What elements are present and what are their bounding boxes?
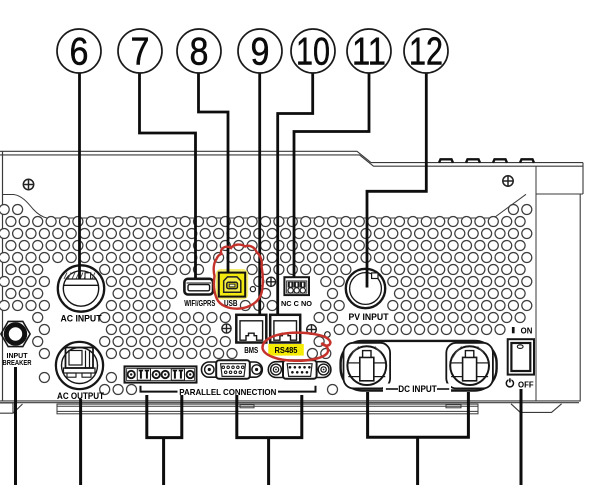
callout circle 10 — [291, 29, 335, 74]
bottom callout fork from DB9 connectors — [237, 395, 302, 485]
svg-text:INPUT: INPUT — [7, 353, 29, 360]
screw left of NC C NO — [266, 277, 275, 286]
callout circle 9 — [238, 29, 282, 74]
left foot — [0, 403, 23, 413]
red hand-drawn loop around USB — [214, 245, 263, 309]
callout circle 7 — [118, 29, 162, 74]
svg-text:OFF: OFF — [518, 381, 534, 390]
RS485 yellow highlight label — [268, 344, 304, 356]
leader line from callout 8 to USB — [199, 73, 229, 273]
right foot — [511, 404, 562, 413]
DB9 male connector — [268, 360, 331, 379]
bottom base bar — [57, 404, 478, 414]
USB type-B port (yellow highlighted) — [216, 269, 248, 300]
svg-text:BMS: BMS — [244, 346, 259, 355]
callout circle 8 — [177, 29, 221, 74]
screw right of RS485 — [307, 325, 317, 335]
svg-text:7: 7 — [131, 31, 150, 74]
svg-text:AC INPUT: AC INPUT — [61, 314, 102, 324]
small panel hole right of USB — [250, 287, 255, 292]
svg-text:11: 11 — [352, 31, 386, 74]
top edge mounting tabs — [439, 159, 534, 163]
svg-text:RS485: RS485 — [275, 346, 299, 355]
RS485 RJ45 port — [270, 315, 300, 343]
screw top-right — [503, 176, 513, 186]
chassis fold line — [535, 166, 537, 401]
svg-text:6: 6 — [70, 31, 89, 74]
leader line from callout 9 to BMS — [258, 73, 261, 315]
INPUT BREAKER label — [3, 353, 32, 367]
bottom callout line from AC OUTPUT — [79, 399, 82, 485]
svg-text:PV INPUT: PV INPUT — [349, 312, 389, 322]
bottom callout line from input breaker — [14, 367, 17, 485]
bottom callout line from power switch — [520, 389, 523, 485]
AC OUTPUT connector — [56, 342, 103, 389]
svg-text:WIFI/GPRS: WIFI/GPRS — [184, 299, 215, 308]
perforated vent holes — [0, 205, 532, 395]
WIFI/GPRS usb-a port — [184, 279, 213, 295]
PARALLEL CONNECTION label bracket — [141, 386, 316, 392]
bottom callout fork from terminal block — [147, 395, 182, 485]
svg-text:NC C NO: NC C NO — [281, 299, 312, 308]
NC C NO relay terminal — [284, 277, 309, 295]
svg-text:10: 10 — [296, 31, 330, 74]
chassis left edge — [2, 152, 4, 402]
red hand-drawn oval around RS485 — [262, 333, 330, 361]
current-sharing terminal block — [125, 366, 197, 382]
DB9 female connector — [202, 360, 263, 379]
leader line from callout 10 to RS485 — [278, 73, 313, 315]
DC input connector left — [344, 343, 391, 389]
input breaker — [1, 321, 30, 346]
power rocker switch — [508, 339, 534, 374]
chassis bottom edge — [0, 401, 580, 403]
BMS RJ45 port — [236, 315, 266, 343]
screw top-left — [23, 179, 33, 189]
svg-text:BREAKER: BREAKER — [3, 360, 32, 367]
perforation area boundary — [3, 194, 527, 218]
AC INPUT connector — [58, 265, 104, 311]
svg-text:12: 12 — [409, 31, 443, 74]
leader line from callout 11 to NC C NO — [294, 73, 369, 277]
svg-text:DC INPUT: DC INPUT — [398, 384, 437, 394]
svg-text:8: 8 — [190, 31, 209, 74]
svg-text:9: 9 — [251, 31, 270, 74]
chassis right edge and top-right corner block — [536, 163, 583, 402]
DC INPUT label — [383, 384, 451, 395]
screw left of BMS — [222, 324, 231, 333]
svg-text:PARALLEL CONNECTION: PARALLEL CONNECTION — [179, 387, 276, 397]
callout circle 12 — [404, 29, 448, 74]
DC INPUT assembly outline — [341, 341, 497, 391]
callout circle 11 — [347, 29, 391, 74]
PV INPUT connector — [346, 269, 385, 308]
leader line from callout 7 to WIFI/GPRS — [140, 73, 196, 279]
svg-text:ON: ON — [521, 327, 533, 336]
chassis top edge (left section, double line with step) — [0, 151, 583, 166]
small panel hole right of RS485 screw — [325, 332, 331, 338]
bottom callout fork from DC INPUT — [368, 392, 469, 485]
callout circle 6 — [57, 29, 101, 74]
DC input connector right — [446, 343, 493, 389]
leader line from callout 12 to PV INPUT — [367, 73, 426, 288]
I ON label — [512, 327, 533, 336]
OFF label with power symbol — [506, 378, 534, 389]
leader line from callout 6 to AC INPUT — [78, 73, 81, 280]
